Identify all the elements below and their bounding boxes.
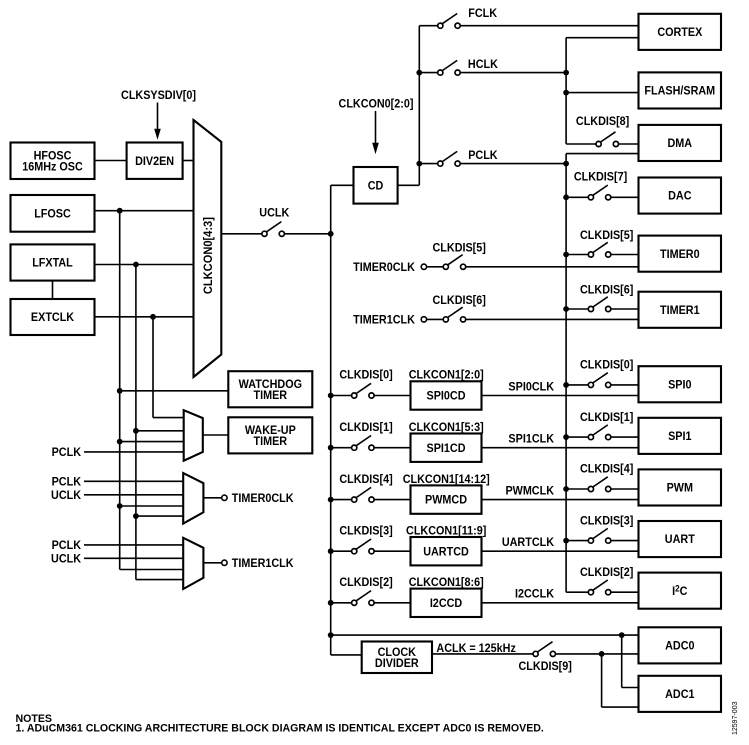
svg-text:16MHz OSC: 16MHz OSC bbox=[22, 161, 83, 174]
svg-text:CLKDIS[1]: CLKDIS[1] bbox=[580, 411, 634, 424]
svg-text:SPI1CD: SPI1CD bbox=[427, 442, 466, 455]
svg-text:HCLK: HCLK bbox=[468, 58, 499, 71]
svg-text:CD: CD bbox=[368, 180, 384, 193]
svg-text:12597-003: 12597-003 bbox=[732, 701, 739, 735]
svg-text:TIMER0CLK: TIMER0CLK bbox=[232, 492, 294, 505]
svg-text:CLKDIS[6]: CLKDIS[6] bbox=[433, 294, 487, 307]
svg-text:PCLK: PCLK bbox=[52, 446, 82, 459]
svg-text:LFOSC: LFOSC bbox=[34, 208, 71, 221]
svg-text:LFXTAL: LFXTAL bbox=[32, 257, 73, 270]
svg-text:CLKDIS[3]: CLKDIS[3] bbox=[339, 525, 393, 538]
svg-text:TIMER1CLK: TIMER1CLK bbox=[232, 557, 294, 570]
svg-text:CLKCON0[2:0]: CLKCON0[2:0] bbox=[339, 98, 414, 111]
svg-text:CLKCON1[2:0]: CLKCON1[2:0] bbox=[409, 369, 484, 382]
svg-text:SPI1: SPI1 bbox=[668, 431, 692, 444]
svg-text:UCLK: UCLK bbox=[51, 553, 82, 566]
svg-text:CLKDIS[5]: CLKDIS[5] bbox=[433, 242, 487, 255]
svg-text:ADC1: ADC1 bbox=[665, 689, 695, 702]
svg-text:CLKDIS[3]: CLKDIS[3] bbox=[580, 515, 634, 528]
svg-text:UART: UART bbox=[665, 534, 695, 547]
svg-text:CLKDIS[2]: CLKDIS[2] bbox=[580, 566, 634, 579]
svg-text:TIMER1CLK: TIMER1CLK bbox=[353, 314, 415, 327]
svg-text:SPI1CLK: SPI1CLK bbox=[508, 433, 554, 446]
svg-text:CLKDIS[4]: CLKDIS[4] bbox=[339, 473, 393, 486]
svg-text:SPI0CLK: SPI0CLK bbox=[508, 381, 554, 394]
svg-text:CLKCON0[4:3]: CLKCON0[4:3] bbox=[203, 217, 215, 294]
svg-text:ACLK = 125kHz: ACLK = 125kHz bbox=[436, 643, 516, 656]
svg-text:FCLK: FCLK bbox=[468, 8, 497, 21]
svg-text:ADC0: ADC0 bbox=[665, 640, 694, 653]
svg-text:PCLK: PCLK bbox=[52, 539, 82, 552]
svg-text:I2CCD: I2CCD bbox=[430, 597, 462, 610]
svg-text:TIMER1: TIMER1 bbox=[660, 304, 700, 317]
svg-text:CLKDIS[4]: CLKDIS[4] bbox=[580, 463, 634, 476]
svg-text:1. ADuCM361 CLOCKING ARCHITECT: 1. ADuCM361 CLOCKING ARCHITECTURE BLOCK … bbox=[16, 722, 544, 734]
svg-text:UARTCLK: UARTCLK bbox=[502, 537, 555, 550]
svg-text:I2C: I2C bbox=[672, 583, 687, 598]
svg-text:SPI0CD: SPI0CD bbox=[427, 390, 466, 403]
svg-text:TIMER0CLK: TIMER0CLK bbox=[353, 261, 415, 274]
svg-text:CLKDIS[7]: CLKDIS[7] bbox=[574, 171, 628, 184]
svg-text:I2CCLK: I2CCLK bbox=[515, 588, 555, 601]
svg-text:TIMER: TIMER bbox=[254, 435, 288, 448]
svg-text:UCLK: UCLK bbox=[259, 207, 290, 220]
svg-text:CLKDIS[6]: CLKDIS[6] bbox=[580, 284, 634, 297]
svg-text:DMA: DMA bbox=[668, 138, 693, 151]
svg-text:PCLK: PCLK bbox=[468, 150, 498, 163]
svg-text:CLKDIS[2]: CLKDIS[2] bbox=[339, 577, 393, 590]
svg-text:CLKDIS[8]: CLKDIS[8] bbox=[576, 116, 630, 129]
svg-text:CLKCON1[5:3]: CLKCON1[5:3] bbox=[409, 421, 484, 434]
svg-text:CLKDIS[0]: CLKDIS[0] bbox=[580, 359, 634, 372]
svg-text:CLKDIS[9]: CLKDIS[9] bbox=[519, 660, 573, 673]
svg-text:DAC: DAC bbox=[668, 190, 691, 203]
svg-text:DIV2EN: DIV2EN bbox=[135, 155, 174, 168]
svg-text:CORTEX: CORTEX bbox=[657, 27, 702, 40]
svg-text:CLKCON1[14:12]: CLKCON1[14:12] bbox=[403, 473, 490, 486]
svg-text:CLKSYSDIV[0]: CLKSYSDIV[0] bbox=[121, 90, 196, 103]
svg-text:SPI0: SPI0 bbox=[668, 379, 691, 392]
svg-text:UCLK: UCLK bbox=[51, 489, 82, 502]
svg-text:PWMCLK: PWMCLK bbox=[505, 485, 554, 498]
svg-text:PCLK: PCLK bbox=[52, 476, 82, 489]
svg-text:TIMER: TIMER bbox=[254, 389, 288, 402]
svg-text:CLKCON1[11:9]: CLKCON1[11:9] bbox=[406, 525, 487, 538]
svg-text:DIVIDER: DIVIDER bbox=[375, 657, 419, 670]
svg-text:TIMER0: TIMER0 bbox=[660, 248, 700, 261]
svg-text:CLKDIS[0]: CLKDIS[0] bbox=[339, 369, 393, 382]
svg-text:CLKDIS[5]: CLKDIS[5] bbox=[580, 230, 634, 243]
svg-text:PWMCD: PWMCD bbox=[425, 494, 467, 507]
svg-text:FLASH/SRAM: FLASH/SRAM bbox=[644, 85, 715, 98]
svg-text:CLKCON1[8:6]: CLKCON1[8:6] bbox=[409, 577, 484, 590]
svg-text:EXTCLK: EXTCLK bbox=[31, 312, 75, 325]
svg-text:PWM: PWM bbox=[667, 482, 693, 495]
svg-text:CLKDIS[1]: CLKDIS[1] bbox=[339, 421, 393, 434]
svg-text:UARTCD: UARTCD bbox=[423, 546, 469, 559]
